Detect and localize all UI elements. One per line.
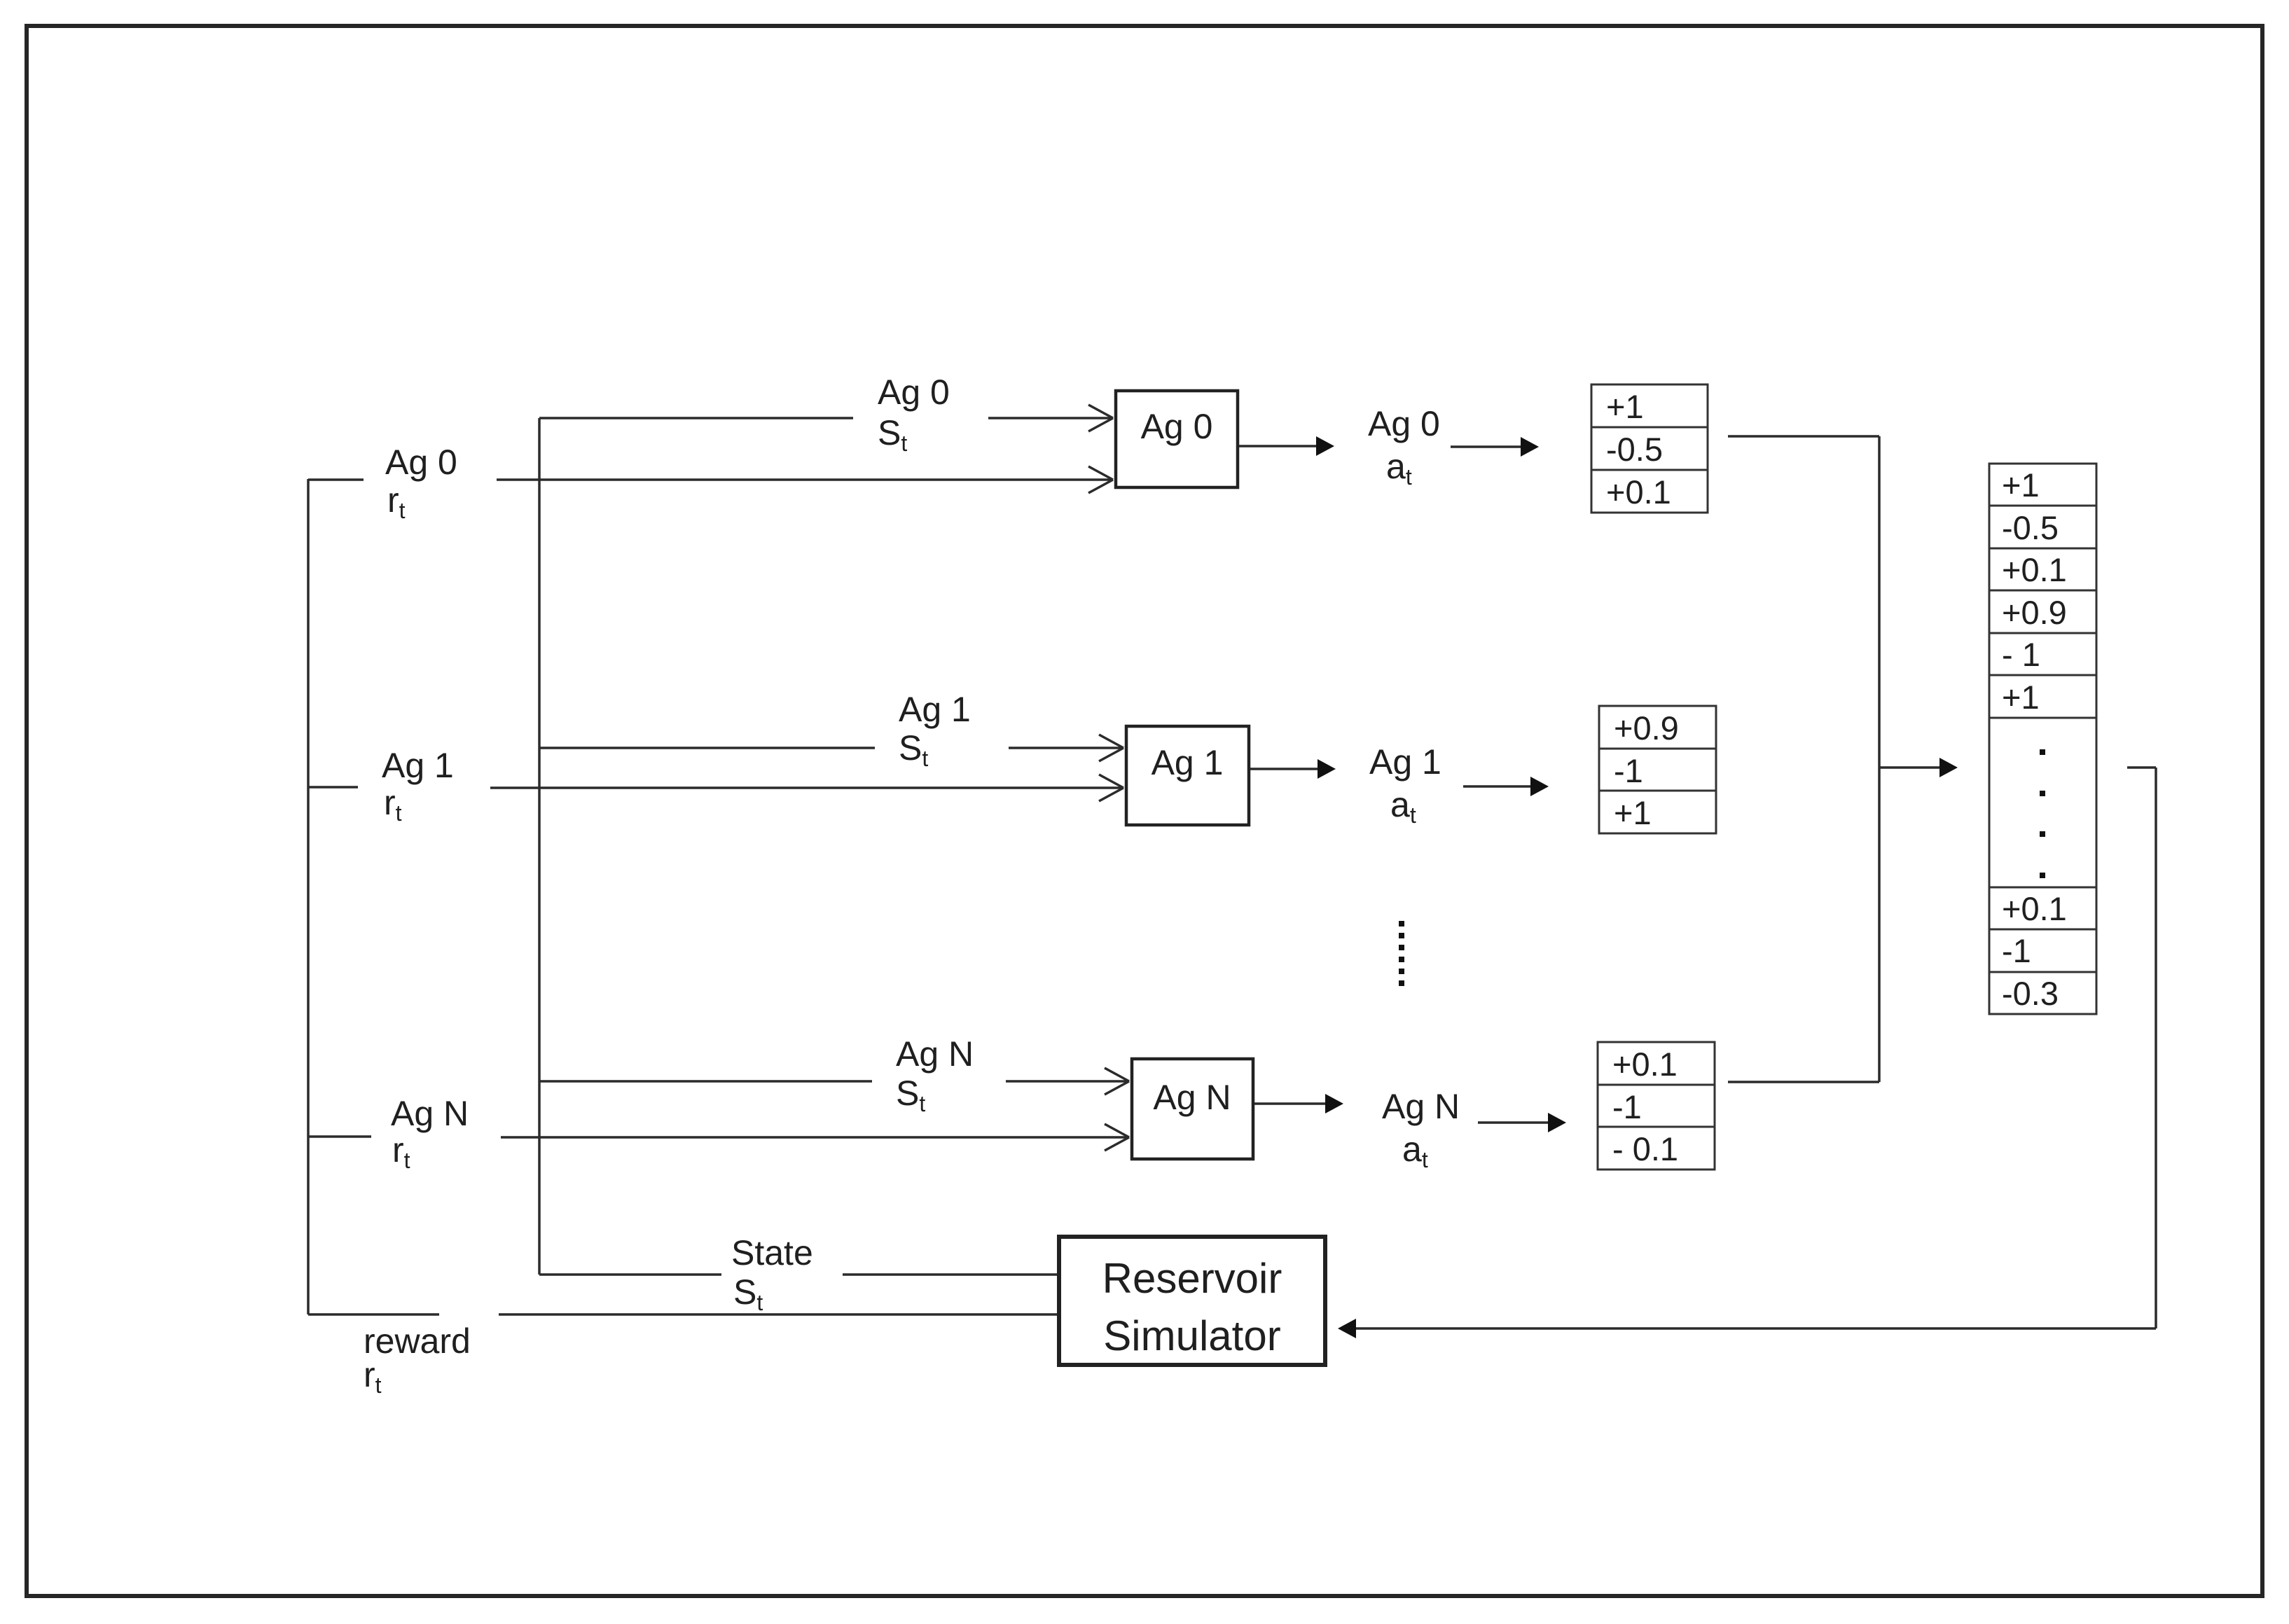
wire Ag 1 St [539,747,875,749]
svg-text:State: State [731,1233,813,1272]
arrow Ag 0 output at [1239,436,1334,456]
box agent Ag N [1132,1059,1253,1159]
arrow Ag 1 St input [1009,735,1123,761]
bus vertical collecting wire [1878,436,1881,1082]
svg-text:Ag 0: Ag 0 [1141,407,1213,446]
wire Ag N rt [501,1136,1128,1139]
svg-text:-1: -1 [1614,752,1643,789]
wire Ag 0 rt [497,478,1112,481]
svg-text:+0.1: +0.1 [2002,890,2067,927]
wire State St from trunk to simulator [539,1273,721,1276]
svg-text:Ag 1: Ag 1 [899,690,971,729]
arrow Ag N St input [1006,1068,1129,1095]
svg-text:Ag N: Ag N [896,1034,974,1074]
label Ag 1 St [899,690,971,771]
svg-text:Ag N: Ag N [1153,1078,1231,1117]
label Ag N at [1382,1087,1460,1172]
svg-text:Ag 0: Ag 0 [385,443,457,482]
svg-text:Ag 1: Ag 1 [382,746,454,785]
table joint action vector [1989,464,2096,1014]
box agent Ag 0 [1116,391,1238,487]
wire Ag 0 St [539,417,853,419]
box agent Ag 1 [1126,726,1249,825]
svg-text:+0.9: +0.9 [1614,709,1679,747]
svg-text:Simulator: Simulator [1103,1312,1280,1359]
svg-text:+1: +1 [1614,794,1652,831]
svg-text:-1: -1 [2002,932,2031,969]
open arrowhead Ag 0 rt input [1088,466,1113,493]
svg-text:+1: +1 [2002,466,2040,504]
vertical ellipsis between Ag 1 and Ag N [1399,921,1404,986]
label Ag 0 at [1368,404,1440,490]
open arrowhead Ag 1 rt input [1099,775,1123,801]
table Ag 1 actions [1599,706,1716,833]
label Ag N rt (left) [391,1094,469,1173]
svg-text:Ag 1: Ag 1 [1369,742,1441,782]
svg-text:+1: +1 [1606,388,1644,425]
label reward rt [364,1321,471,1398]
svg-text:+0.1: +0.1 [1612,1046,1678,1083]
box Reservoir Simulator [1059,1237,1325,1365]
svg-text:+0.9: +0.9 [2002,594,2067,631]
label Ag 1 rt (left) [382,746,454,826]
svg-text:-1: -1 [1612,1088,1642,1125]
reward bus bracket (left vertical with ticks) [308,479,439,1314]
svg-text:Ag 1: Ag 1 [1152,743,1224,782]
svg-text:reward: reward [364,1321,471,1361]
arrow Ag 1 output at [1250,759,1336,779]
wire Ag N St [539,1080,872,1083]
label State St [731,1233,813,1315]
label Ag N St [896,1034,974,1116]
filled arrowhead feedback into simulator [1338,1319,1356,1338]
svg-text:+0.1: +0.1 [2002,551,2067,588]
svg-text:-0.3: -0.3 [2002,975,2059,1012]
label Ag 0 rt (left) [385,443,457,523]
arrow Ag 0 to action table [1451,437,1539,457]
svg-text:Ag N: Ag N [1382,1087,1460,1126]
ellipsis dots inside joint table [2040,749,2045,878]
svg-text:Ag 0: Ag 0 [878,373,950,412]
svg-text:-0.5: -0.5 [2002,509,2059,546]
arrow Ag 0 St input [988,405,1113,431]
wire Ag N table to bus [1728,1081,1879,1083]
svg-text:-0.5: -0.5 [1606,431,1663,468]
wire Ag 1 rt [490,786,1123,789]
svg-text:Ag 0: Ag 0 [1368,404,1440,443]
label Ag 1 at [1369,742,1441,828]
wire feedback from joint table to simulator [1356,768,2156,1328]
svg-text:Reservoir: Reservoir [1102,1255,1282,1302]
open arrowhead Ag N rt input [1105,1124,1129,1151]
arrow Ag N to action table [1478,1113,1566,1132]
arrow bus to joint action table [1879,758,1958,777]
table Ag N actions [1598,1042,1715,1170]
state trunk vertical wire [538,418,541,1275]
label Ag 0 St [878,373,950,456]
wire Ag 0 table to bus [1728,435,1879,438]
svg-text:Ag N: Ag N [391,1094,469,1133]
table Ag 0 actions [1591,384,1708,513]
arrow Ag 1 to action table [1463,777,1549,796]
arrow Ag N output at [1254,1094,1343,1113]
svg-text:- 1: - 1 [2002,636,2040,673]
wire reward rt from bracket to simulator [499,1313,1059,1316]
svg-text:- 0.1: - 0.1 [1612,1130,1678,1167]
svg-text:+0.1: +0.1 [1606,473,1671,511]
svg-text:+1: +1 [2002,679,2040,716]
